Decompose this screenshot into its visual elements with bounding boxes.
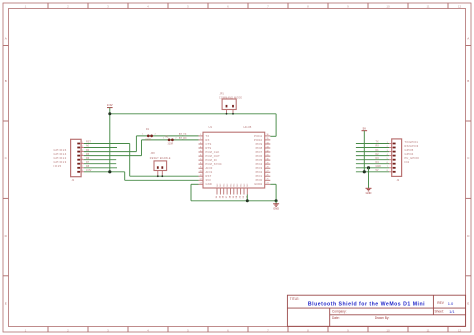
svg-text:GPIO4: GPIO4 [405, 152, 414, 156]
svg-text:5V: 5V [376, 169, 379, 172]
svg-text:GND2: GND2 [254, 182, 262, 186]
svg-text:RX: RX [206, 138, 210, 142]
junction GND row to ground symbol [367, 166, 370, 169]
svg-text:BT_TX: BT_TX [179, 133, 187, 136]
svg-text:Bluetooth Shield for the WeMos: Bluetooth Shield for the WeMos D1 Mini [308, 302, 425, 308]
svg-text:12: 12 [458, 5, 462, 9]
title block divider lines [287, 307, 465, 309]
junction at 3.3V symbol and rail [108, 112, 111, 115]
svg-text:IO15: IO15 [54, 164, 62, 168]
svg-text:TITLE:: TITLE: [290, 297, 300, 301]
svg-text:PIO1: PIO1 [256, 174, 263, 178]
svg-text:13: 13 [200, 183, 202, 185]
svg-text:2: 2 [155, 134, 156, 136]
svg-text:PIO6: PIO6 [256, 154, 263, 158]
wire 3.3V elbow down to U1 3V3 pin [124, 172, 126, 181]
svg-text:Company:: Company: [332, 309, 347, 313]
svg-text:HC-05: HC-05 [244, 125, 252, 129]
svg-text:12: 12 [200, 179, 202, 181]
svg-text:1.0: 1.0 [448, 301, 454, 306]
svg-text:26: 26 [266, 175, 268, 177]
svg-text:NC: NC [234, 183, 236, 187]
svg-text:32: 32 [266, 150, 268, 152]
wire 3.3V vertical from symbol to 3V3 row [109, 108, 111, 172]
svg-text:PIO0: PIO0 [256, 178, 263, 182]
svg-text:RX: RX [376, 145, 380, 148]
svg-text:B: B [5, 79, 7, 83]
svg-text:NC: NC [217, 183, 219, 187]
svg-text:PIO8: PIO8 [256, 146, 263, 150]
wire D5 elbow up to BT_RX wire [141, 140, 143, 156]
svg-text:2: 2 [175, 138, 176, 140]
svg-text:GPIO5: GPIO5 [405, 148, 414, 152]
jumper JP1 pin stubs to 3.3V rail [226, 110, 228, 114]
junction 5V vertical on 5V row [363, 170, 366, 173]
svg-text:36: 36 [266, 134, 268, 136]
wire U1 right GND2 pin to ground rail [270, 183, 276, 185]
svg-text:30: 30 [266, 158, 268, 160]
svg-text:AIO1: AIO1 [206, 170, 213, 174]
frame column ticks bottom [47, 327, 49, 333]
jumper JP2 pads [157, 166, 159, 169]
junction bottom pin on ground rail [246, 199, 249, 202]
svg-text:TX: TX [376, 141, 379, 144]
svg-text:PCM_IN: PCM_IN [206, 158, 217, 162]
svg-text:25: 25 [266, 179, 268, 181]
svg-text:GND: GND [206, 182, 213, 186]
wire RST elbow down to U1 RST pin row [129, 144, 131, 177]
wire 3.3V rail drop to U1 right pin PIO11 [275, 114, 277, 137]
jumper JP1 pads [226, 105, 228, 108]
svg-text:NC: NC [244, 183, 246, 187]
connector J1 body [71, 139, 82, 176]
svg-text:PIO3: PIO3 [256, 166, 263, 170]
svg-text:Sheet:: Sheet: [435, 309, 444, 313]
wire D0 elbow up to BT_TX wire [135, 136, 137, 152]
svg-text:NC: NC [237, 183, 239, 187]
svg-text:TX: TX [206, 134, 210, 138]
IC U1 left pin stubs [199, 135, 204, 137]
svg-text:NC: NC [240, 183, 242, 187]
wire D6 stub [84, 159, 116, 161]
svg-text:7: 7 [200, 158, 201, 160]
svg-text:27: 27 [266, 171, 268, 173]
jumper JP1 body [222, 99, 236, 110]
svg-text:E: E [467, 302, 469, 306]
svg-text:330R: 330R [145, 139, 151, 142]
svg-text:Drawn By:: Drawn By: [375, 316, 390, 320]
svg-text:JP1: JP1 [220, 93, 225, 96]
IC U1 bottom pin stubs [216, 188, 218, 195]
svg-text:E: E [5, 302, 7, 306]
wire 3.3V row from J1 [84, 171, 125, 173]
svg-text:PIO11: PIO11 [254, 134, 263, 138]
svg-text:330R: 330R [168, 142, 174, 145]
svg-text:PIO10: PIO10 [254, 138, 263, 142]
svg-text:28: 28 [266, 167, 268, 169]
frame row ticks right [466, 45, 472, 47]
svg-text:NC: NC [224, 183, 226, 187]
svg-text:24: 24 [266, 183, 268, 185]
svg-text:JP2: JP2 [151, 152, 156, 155]
title block outline [287, 295, 465, 326]
wire RST row from J1 [84, 143, 130, 145]
svg-text:Date:: Date: [332, 316, 340, 320]
jumper JP2 pin stubs to RST wire [157, 171, 159, 177]
svg-text:CTS: CTS [206, 142, 212, 146]
svg-text:11: 11 [426, 5, 429, 9]
svg-text:NC: NC [227, 183, 229, 187]
wire A0 stub [84, 147, 117, 149]
svg-text:BT_RX: BT_RX [179, 137, 187, 140]
svg-text:8: 8 [200, 162, 201, 164]
svg-text:RESET ENABLE: RESET ENABLE [150, 157, 171, 160]
resistor R1 [147, 135, 150, 138]
IC U1 right pin stubs [265, 135, 271, 137]
svg-text:1: 1 [157, 173, 158, 175]
svg-text:NC: NC [247, 183, 249, 187]
wire 5V vertical to 5V row [363, 131, 365, 172]
svg-text:29: 29 [266, 162, 268, 164]
svg-text:31: 31 [266, 154, 268, 156]
wire D8 stub [84, 167, 117, 169]
svg-text:3: 3 [200, 142, 201, 144]
svg-text:A: A [467, 37, 469, 41]
ground symbol right [366, 187, 372, 189]
wire 3.3V horizontal rail [110, 113, 276, 115]
svg-text:4: 4 [200, 146, 201, 148]
svg-text:IO2: IO2 [405, 160, 410, 164]
wire BT_RX through R2 to U1 RX pin [142, 139, 199, 141]
right side net wires to J2 [356, 143, 389, 145]
svg-text:PIO9: PIO9 [256, 142, 263, 146]
junction 3.3V vertical on 3.3V row [108, 170, 111, 173]
svg-text:AIO0: AIO0 [206, 166, 213, 170]
svg-text:U1: U1 [209, 125, 213, 129]
svg-text:1/1: 1/1 [449, 310, 454, 314]
wire ground rail under U1 [191, 200, 276, 202]
svg-text:10: 10 [386, 328, 390, 332]
wire U1 bottom pin 23 drop to ground rail [246, 195, 248, 201]
svg-text:11: 11 [426, 328, 429, 332]
svg-text:10: 10 [386, 5, 390, 9]
svg-text:RTS: RTS [206, 146, 212, 150]
ground symbol under U1 [275, 201, 277, 204]
svg-text:PIO4: PIO4 [256, 162, 263, 166]
svg-text:PCM_CLK: PCM_CLK [206, 150, 220, 154]
svg-text:NC: NC [220, 183, 222, 187]
svg-text:34: 34 [266, 142, 268, 144]
svg-text:3.3V: 3.3V [107, 103, 113, 107]
svg-text:2: 2 [200, 138, 201, 140]
svg-text:PIO7: PIO7 [256, 150, 263, 154]
svg-text:35: 35 [266, 138, 268, 140]
svg-text:NC: NC [230, 183, 232, 187]
svg-text:6: 6 [200, 154, 201, 156]
svg-text:GND: GND [376, 165, 382, 168]
svg-text:3V3: 3V3 [206, 178, 212, 182]
svg-text:10: 10 [200, 171, 202, 173]
svg-text:5V: 5V [363, 127, 367, 131]
svg-text:1: 1 [200, 134, 201, 136]
connector J2 body [392, 139, 402, 177]
wire BT_TX through R1 to U1 TX pin [136, 135, 198, 137]
wire D7 stub [84, 163, 116, 165]
svg-text:RST: RST [206, 174, 212, 178]
svg-text:2: 2 [162, 173, 163, 175]
svg-text:1: 1 [163, 138, 164, 140]
frame column ticks top [47, 3, 49, 9]
svg-text:B: B [467, 79, 469, 83]
svg-text:PIO5: PIO5 [256, 158, 263, 162]
svg-text:GND: GND [273, 207, 279, 211]
frame row ticks left [3, 45, 9, 47]
wire U1 left GND pin to ground rail [191, 183, 199, 185]
svg-text:PCM_SYNC: PCM_SYNC [206, 162, 222, 166]
connector J2 pads and pin stubs [393, 143, 396, 145]
svg-text:PIO2: PIO2 [256, 170, 263, 174]
svg-text:GND: GND [366, 191, 372, 195]
jumper JP2 body [154, 161, 167, 171]
svg-text:12: 12 [458, 328, 462, 332]
junction ground rail at GND symbol [275, 199, 278, 202]
svg-text:PU_GPIO0: PU_GPIO0 [405, 156, 420, 160]
svg-text:1: 1 [226, 112, 227, 114]
svg-text:A: A [5, 37, 7, 41]
resistor R2 [168, 139, 171, 142]
svg-text:RX/GPIO3: RX/GPIO3 [405, 144, 419, 148]
svg-text:33: 33 [266, 146, 268, 148]
connector J1 pads and pin stubs [77, 143, 80, 145]
svg-text:1: 1 [142, 134, 143, 136]
svg-text:11: 11 [200, 175, 202, 177]
wire D0 row from J1 [84, 151, 136, 153]
svg-text:REV: REV [437, 301, 444, 305]
svg-text:9: 9 [200, 167, 201, 169]
svg-text:2: 2 [232, 112, 233, 114]
IC U1 body [203, 132, 265, 188]
svg-text:TX/GPIO1: TX/GPIO1 [405, 140, 419, 144]
wire D5 row from J1 [84, 155, 142, 157]
svg-text:PCM_OUT: PCM_OUT [206, 154, 221, 158]
svg-text:5: 5 [200, 150, 201, 152]
wire GND drop to ground symbol [368, 168, 370, 189]
